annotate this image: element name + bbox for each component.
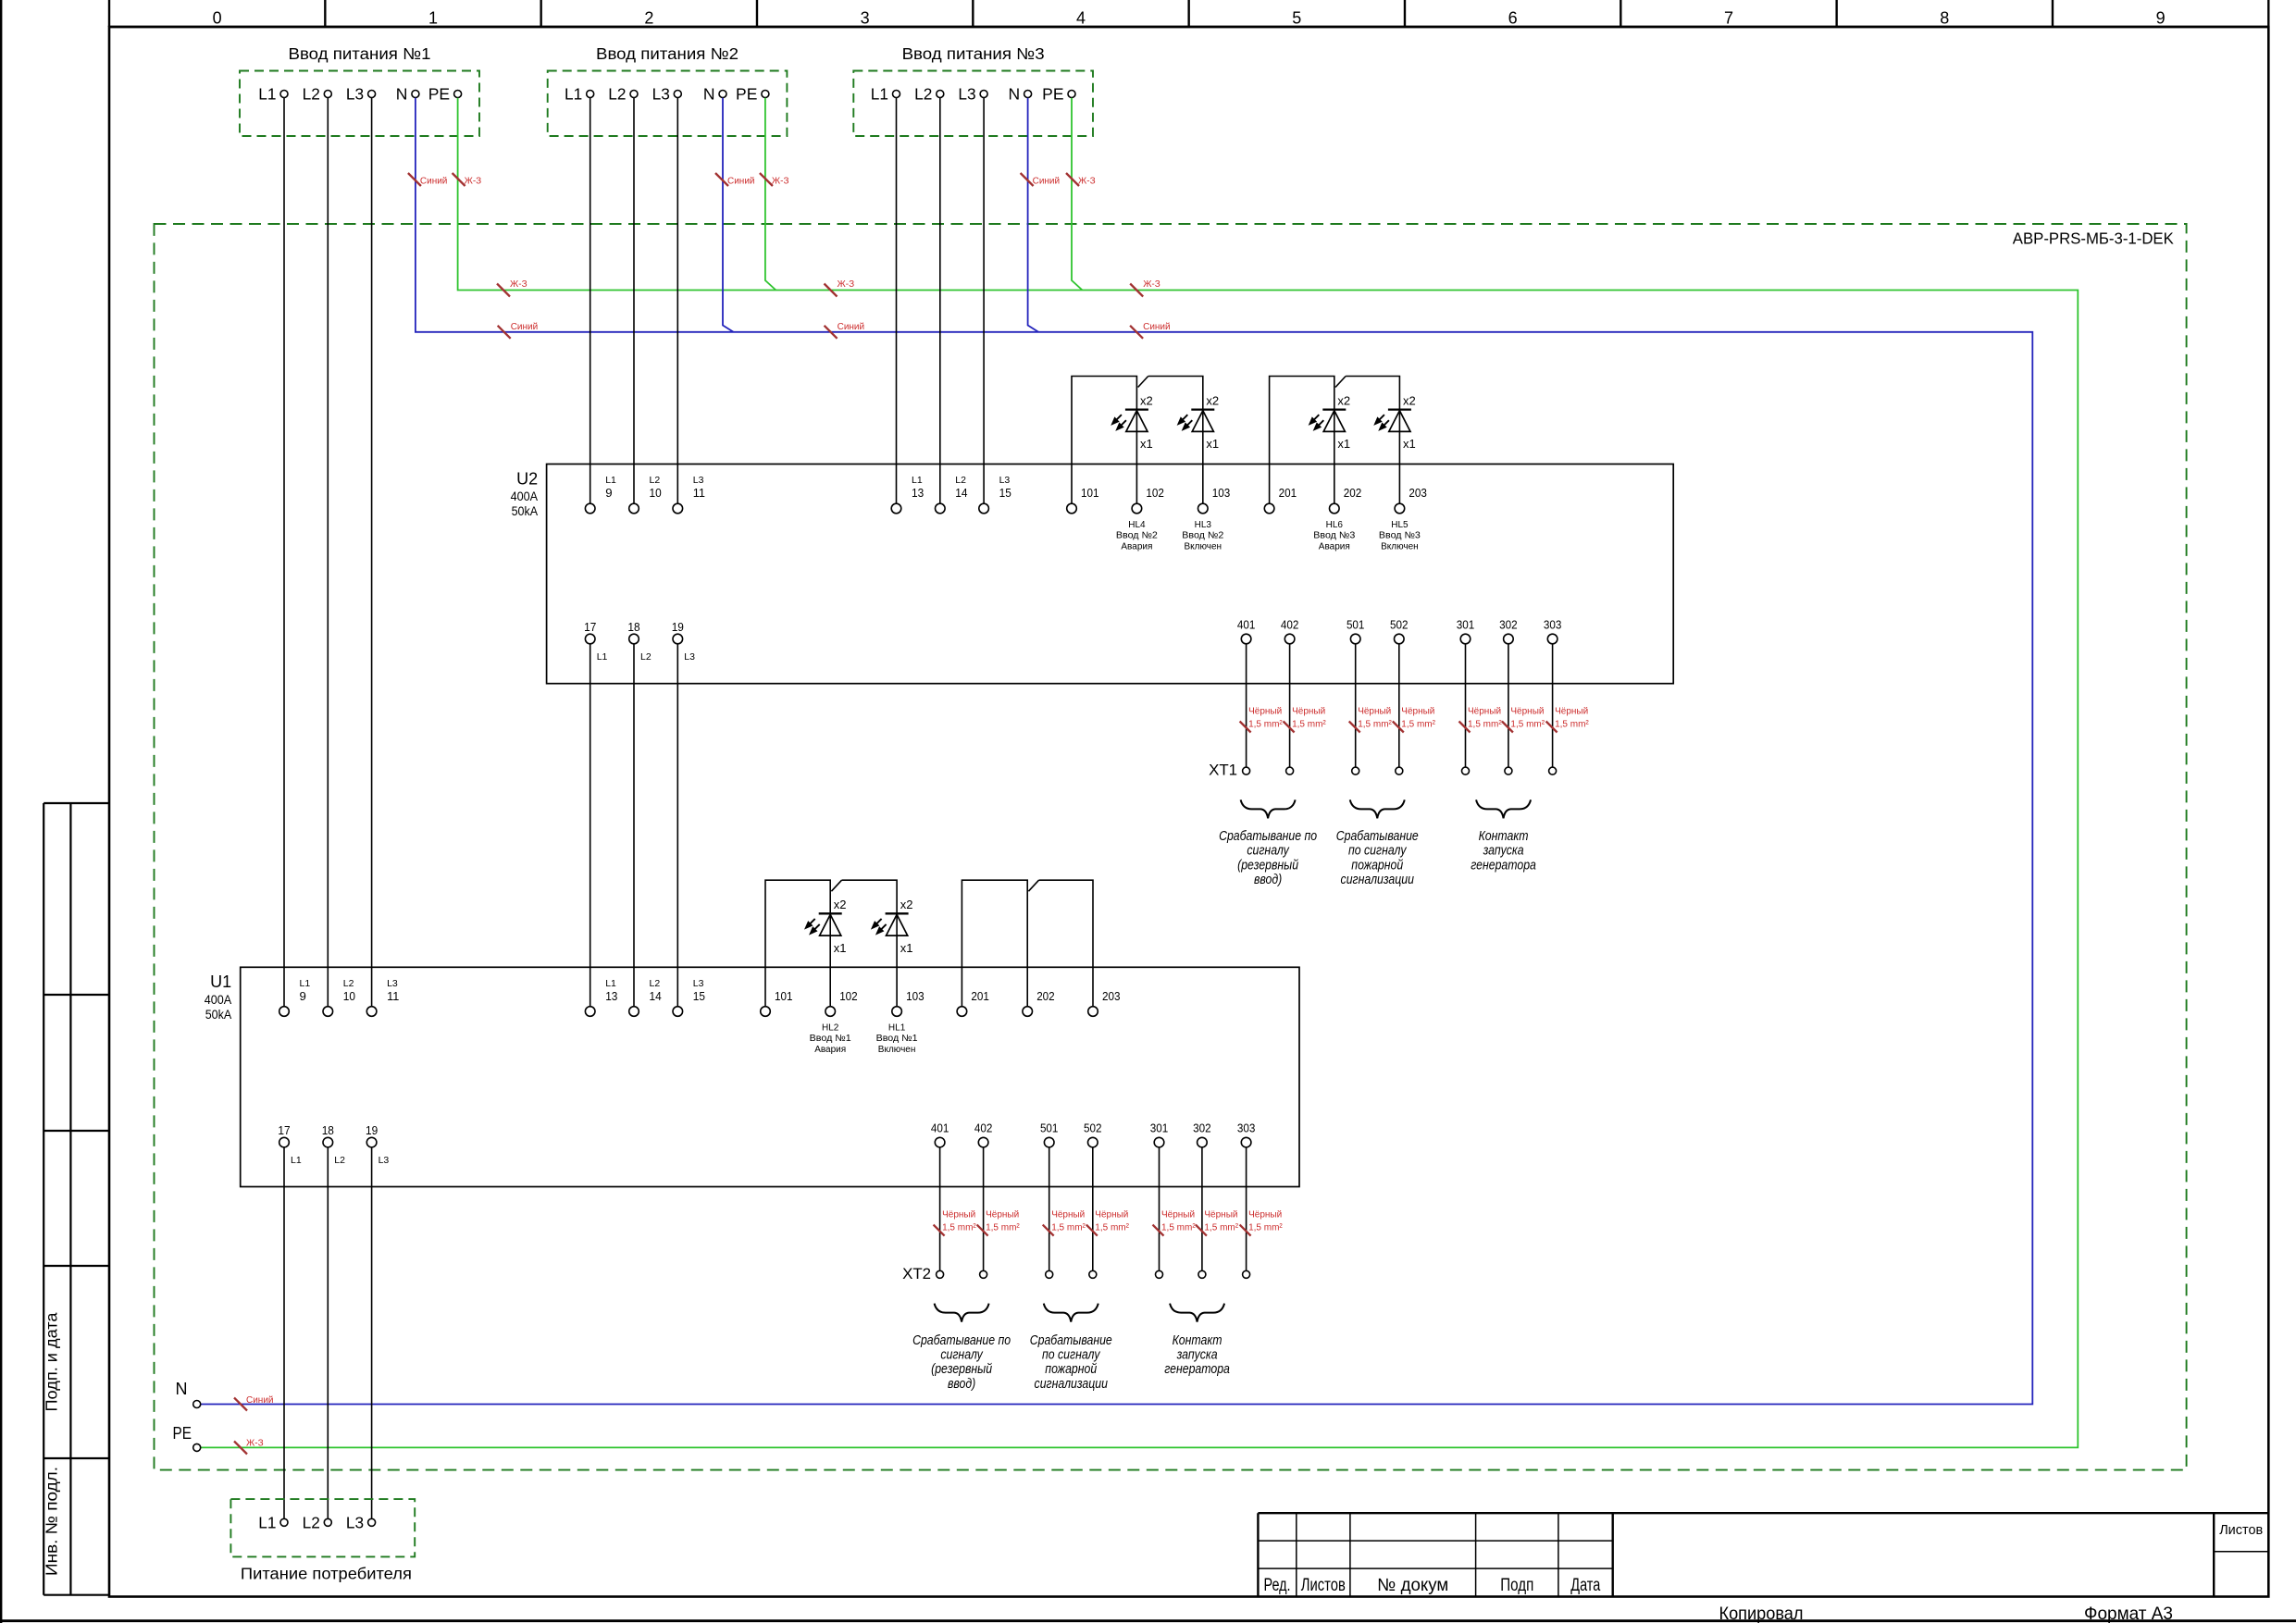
svg-text:Чёрный: Чёрный	[942, 1210, 975, 1220]
svg-text:АВР-PRS-МБ-3-1-DEK: АВР-PRS-МБ-3-1-DEK	[2013, 229, 2174, 248]
svg-text:400A: 400A	[205, 992, 232, 1007]
input block Ввод питания №2 (dashed box)	[548, 44, 788, 136]
brace under XT1 group 1	[1241, 799, 1296, 818]
svg-text:0: 0	[213, 9, 222, 28]
changeover controller U1 (400A 50kA)	[205, 967, 1299, 1186]
U2 input terminal 9 (L1)	[585, 475, 616, 514]
U2 input terminal 13 (L1)	[891, 475, 924, 514]
U2 input terminal 11 (L3)	[673, 475, 705, 514]
svg-text:Ввод №1: Ввод №1	[810, 1034, 851, 1044]
svg-text:x1: x1	[1140, 437, 1153, 451]
wire U1 pin 19 to consumer L3	[371, 1147, 373, 1518]
svg-text:3: 3	[861, 9, 870, 28]
svg-text:102: 102	[839, 989, 858, 1003]
svg-text:15: 15	[999, 486, 1011, 500]
svg-text:501: 501	[1040, 1121, 1059, 1134]
svg-text:L2: L2	[914, 85, 932, 104]
svg-text:Ж-З: Ж-З	[772, 177, 789, 187]
svg-text:10: 10	[343, 989, 355, 1003]
terminal PE of input 3	[1042, 85, 1075, 104]
output block Питание потребителя (dashed box)	[230, 1499, 415, 1582]
svg-text:Чёрный: Чёрный	[1095, 1210, 1128, 1220]
svg-text:L1: L1	[258, 1513, 276, 1531]
svg-text:x2: x2	[900, 898, 913, 911]
svg-text:1,5 mm²: 1,5 mm²	[1161, 1223, 1196, 1233]
svg-text:Контакт: Контакт	[1173, 1332, 1222, 1347]
svg-text:201: 201	[1279, 486, 1297, 500]
wire input2 L2 to U2 pin 10	[633, 98, 635, 504]
wire input1 L1 to U1 pin 9	[283, 98, 285, 1007]
U2 input terminal 15 (L3)	[979, 475, 1011, 514]
U1 signal terminal 103	[892, 989, 925, 1016]
svg-text:Чёрный: Чёрный	[1292, 707, 1325, 717]
label x2/x1 pins of HL5	[1403, 394, 1416, 452]
U2 signal output terminal 401	[1237, 617, 1256, 644]
wire label Чёрный 1,5 mm² at XT1 x=1346.6	[1240, 707, 1284, 733]
svg-text:14: 14	[650, 989, 662, 1003]
svg-text:x1: x1	[834, 941, 847, 955]
svg-text:N: N	[396, 85, 408, 104]
terminal L1 of input 1	[258, 85, 288, 104]
svg-text:17: 17	[584, 620, 596, 634]
svg-text:Формат А3: Формат А3	[2084, 1604, 2173, 1623]
svg-text:Ввод питания №1: Ввод питания №1	[289, 44, 431, 63]
svg-text:x2: x2	[1337, 394, 1350, 408]
U1 signal terminal 201	[957, 989, 989, 1016]
consumer terminal L2	[303, 1513, 332, 1531]
caption under XT2 group 3	[1164, 1332, 1230, 1377]
svg-text:501: 501	[1347, 617, 1365, 631]
svg-text:203: 203	[1102, 989, 1121, 1003]
svg-text:сигналу: сигналу	[940, 1347, 984, 1362]
svg-text:L3: L3	[693, 475, 704, 486]
U1 input terminal 11 (L3)	[366, 978, 399, 1016]
svg-text:U2: U2	[516, 469, 538, 488]
svg-text:302: 302	[1193, 1121, 1211, 1134]
LED lamp HL2	[805, 913, 842, 935]
svg-text:L2: L2	[650, 978, 661, 989]
svg-text:(резервный: (резервный	[1237, 858, 1298, 873]
svg-text:1,5 mm²: 1,5 mm²	[1510, 720, 1545, 730]
wire U2 pin 19 to U1 pin 15	[676, 644, 678, 1007]
terminal block XT1	[1209, 762, 1557, 779]
svg-text:L3: L3	[379, 1155, 390, 1166]
svg-text:Включен: Включен	[878, 1045, 916, 1055]
U1 signal output terminal 402	[974, 1121, 993, 1146]
svg-text:13: 13	[605, 989, 617, 1003]
svg-text:Срабатывание по: Срабатывание по	[912, 1332, 1011, 1347]
svg-text:17: 17	[278, 1123, 290, 1137]
U2 signal terminal 203	[1395, 486, 1427, 514]
svg-text:x2: x2	[834, 898, 847, 911]
wire label Ж-З on PE drop of input 2	[760, 173, 789, 187]
svg-text:Питание потребителя: Питание потребителя	[241, 1565, 412, 1583]
svg-text:1,5 mm²: 1,5 mm²	[1204, 1223, 1238, 1233]
svg-text:Чёрный: Чёрный	[1358, 707, 1391, 717]
wire bracket from terminal column 1158.0 over 1228.4 and 1299.8	[1072, 377, 1203, 504]
U1 signal terminal 203	[1088, 989, 1121, 1016]
svg-text:303: 303	[1237, 1121, 1256, 1134]
svg-text:запуска: запуска	[1483, 843, 1524, 858]
U2 signal output terminal 303	[1544, 617, 1562, 644]
svg-text:по сигналу: по сигналу	[1348, 843, 1408, 858]
svg-text:PE: PE	[1042, 85, 1063, 104]
svg-text:Ввод №3: Ввод №3	[1379, 531, 1421, 541]
svg-text:(резервный: (резервный	[931, 1361, 992, 1376]
svg-text:19: 19	[672, 620, 684, 634]
brace under XT2 group 1	[935, 1304, 989, 1322]
svg-text:Срабатывание: Срабатывание	[1030, 1332, 1112, 1347]
svg-text:L2: L2	[955, 475, 966, 486]
wire input3 L3 to U2 pin 15	[983, 98, 985, 504]
wire label Чёрный 1,5 mm² at XT1 x=1677.6	[1546, 707, 1590, 733]
svg-text:HL1: HL1	[888, 1023, 906, 1034]
terminal L2 of input 2	[608, 85, 638, 104]
U2 signal output terminal 301	[1457, 617, 1475, 644]
svg-text:L1: L1	[597, 651, 608, 663]
svg-text:401: 401	[1237, 617, 1256, 631]
U1 signal output terminal 302	[1193, 1121, 1211, 1146]
wire input3 L1 to U2 pin 13	[896, 98, 898, 504]
U2 signal output terminal 402	[1281, 617, 1299, 644]
wire input3 L2 to U2 pin 14	[939, 98, 941, 504]
wire to XT2 terminal at x=1346.6	[1246, 1147, 1247, 1270]
svg-text:Авария: Авария	[1319, 541, 1350, 551]
terminal L2 of input 1	[303, 85, 332, 104]
svg-text:1,5 mm²: 1,5 mm²	[1468, 720, 1502, 730]
svg-text:Синий: Синий	[727, 177, 755, 187]
N bus Синий (blue) from input1 N, around right side to N terminal	[201, 98, 2032, 1405]
svg-text:L1: L1	[871, 85, 888, 104]
svg-text:1,5 mm²: 1,5 mm²	[1248, 1223, 1283, 1233]
label HL6 Ввод №3 Авария	[1313, 520, 1355, 551]
svg-text:301: 301	[1150, 1121, 1169, 1134]
svg-text:U1: U1	[210, 973, 231, 991]
svg-text:L1: L1	[300, 978, 311, 989]
wire label Синий at N terminal	[234, 1395, 274, 1411]
svg-text:HL4: HL4	[1128, 520, 1146, 530]
svg-text:Ввод №1: Ввод №1	[876, 1034, 918, 1044]
svg-text:Синий: Синий	[420, 177, 448, 187]
brace under XT2 group 3	[1170, 1304, 1224, 1322]
caption under XT1 group 1	[1219, 828, 1318, 886]
terminal N of input 1	[396, 85, 419, 104]
svg-text:x1: x1	[1206, 437, 1219, 451]
svg-text:Чёрный: Чёрный	[1248, 1210, 1282, 1220]
svg-text:9: 9	[605, 486, 612, 500]
svg-text:x2: x2	[1140, 394, 1153, 408]
svg-text:Чёрный: Чёрный	[1468, 707, 1501, 717]
svg-text:PE: PE	[736, 85, 757, 104]
svg-text:Чёрный: Чёрный	[1401, 707, 1434, 717]
svg-text:1,5 mm²: 1,5 mm²	[1555, 720, 1589, 730]
caption under XT2 group 2	[1030, 1332, 1112, 1391]
U1 signal terminal 101	[761, 989, 793, 1016]
svg-text:Срабатывание: Срабатывание	[1336, 828, 1419, 843]
svg-text:Контакт: Контакт	[1479, 828, 1529, 843]
svg-text:18: 18	[322, 1123, 334, 1137]
svg-text:1,5 mm²: 1,5 mm²	[1051, 1223, 1086, 1233]
label x2/x1 pins of HL2	[834, 898, 847, 955]
U1 input terminal 13 (L1)	[585, 978, 617, 1016]
svg-text:Включен: Включен	[1185, 541, 1222, 551]
wire label Ж-З on PE drop of input 1	[453, 173, 482, 187]
wire to XT1 terminal at x=1677.6	[1552, 644, 1554, 767]
svg-text:L2: L2	[650, 475, 661, 486]
svg-text:Включен: Включен	[1381, 541, 1419, 551]
svg-text:202: 202	[1036, 989, 1055, 1003]
svg-text:202: 202	[1344, 486, 1362, 500]
wire label Чёрный 1,5 mm² at XT2 x=1062.6	[977, 1210, 1021, 1236]
wire input1 L3 to U1 pin 11	[371, 98, 373, 1007]
wire label Чёрный 1,5 mm² at XT1 x=1511.8	[1393, 707, 1436, 733]
svg-text:1,5 mm²: 1,5 mm²	[1248, 720, 1283, 730]
svg-text:пожарной: пожарной	[1045, 1361, 1097, 1376]
brace under XT1 group 2	[1350, 799, 1405, 818]
LED lamp HL1	[872, 913, 909, 935]
U1 signal terminal 102	[825, 989, 858, 1016]
svg-text:Чёрный: Чёрный	[986, 1210, 1019, 1220]
svg-text:301: 301	[1457, 617, 1475, 631]
svg-text:502: 502	[1084, 1121, 1102, 1134]
svg-text:L3: L3	[684, 651, 695, 663]
wire label Чёрный 1,5 mm² at XT1 x=1464.7	[1349, 707, 1393, 733]
svg-text:L1: L1	[912, 475, 923, 486]
svg-text:Ввод №2: Ввод №2	[1182, 531, 1223, 541]
svg-text:Ж-З: Ж-З	[1078, 177, 1096, 187]
svg-text:Ж-З: Ж-З	[465, 177, 482, 187]
svg-text:Ж-З: Ж-З	[838, 279, 855, 290]
svg-text:Ввод №3: Ввод №3	[1313, 531, 1355, 541]
svg-text:L1: L1	[605, 475, 616, 486]
svg-text:Инв. № подл.: Инв. № подл.	[43, 1467, 61, 1576]
terminal L3 of input 2	[652, 85, 682, 104]
svg-text:1: 1	[428, 9, 438, 28]
wire to XT1 terminal at x=1346.6	[1246, 644, 1247, 767]
svg-text:L2: L2	[608, 85, 626, 104]
svg-text:1,5 mm²: 1,5 mm²	[1095, 1223, 1129, 1233]
svg-text:x1: x1	[900, 941, 913, 955]
wire to XT1 terminal at x=1464.7	[1355, 644, 1357, 767]
U2 signal output terminal 502	[1390, 617, 1409, 644]
wire label Ж-З on PE bus segment 3	[1130, 279, 1160, 297]
svg-text:Синий: Синий	[1033, 177, 1061, 187]
svg-text:14: 14	[955, 486, 967, 500]
svg-text:сигналу: сигналу	[1247, 843, 1290, 858]
svg-text:генератора: генератора	[1471, 858, 1536, 873]
svg-text:402: 402	[974, 1121, 993, 1134]
LED lamp HL4	[1111, 410, 1148, 432]
wire label Чёрный 1,5 mm² at XT1 x=1583.5	[1459, 707, 1503, 733]
terminal PE of input 2	[736, 85, 769, 104]
svg-text:19: 19	[366, 1123, 378, 1137]
svg-text:по сигналу: по сигналу	[1042, 1347, 1101, 1362]
terminal N (neutral output)	[176, 1380, 201, 1408]
wire U2 pin 17 to U1 pin 13	[590, 644, 591, 1007]
svg-text:L2: L2	[334, 1155, 345, 1166]
svg-text:Ввод №2: Ввод №2	[1116, 531, 1158, 541]
svg-text:Чёрный: Чёрный	[1051, 1210, 1085, 1220]
svg-text:1,5 mm²: 1,5 mm²	[986, 1223, 1020, 1233]
wire bracket from terminal column 1039.4 over 1110.2 and 1181.0	[962, 880, 1093, 1006]
svg-text:4: 4	[1076, 9, 1086, 28]
wire label Синий on N bus segment 3	[1130, 322, 1171, 339]
svg-text:Синий: Синий	[838, 322, 865, 332]
svg-text:502: 502	[1390, 617, 1409, 631]
svg-text:1,5 mm²: 1,5 mm²	[942, 1223, 976, 1233]
wire input1 L2 to U1 pin 10	[327, 98, 329, 1007]
svg-text:11: 11	[387, 989, 399, 1003]
wire U1 pin 17 to consumer L1	[283, 1147, 285, 1518]
svg-text:Чёрный: Чёрный	[1510, 707, 1544, 717]
svg-text:1,5 mm²: 1,5 mm²	[1292, 720, 1326, 730]
svg-text:Синий: Синий	[1143, 322, 1171, 332]
U2 input terminal 14 (L2)	[936, 475, 968, 514]
wire N input2 drop to N bus (with junction jog)	[723, 98, 734, 332]
U1 input terminal 9 (L1)	[279, 978, 311, 1016]
wire label Ж-З on PE bus segment 2	[825, 279, 855, 297]
svg-text:L1: L1	[565, 85, 582, 104]
label x2/x1 pins of HL6	[1337, 394, 1350, 452]
terminal L1 of input 3	[871, 85, 900, 104]
svg-text:103: 103	[906, 989, 925, 1003]
svg-text:L3: L3	[652, 85, 670, 104]
svg-text:XT1: XT1	[1209, 762, 1237, 779]
svg-text:N: N	[176, 1380, 188, 1398]
svg-text:Ред.: Ред.	[1264, 1576, 1291, 1595]
svg-text:№ докум: № докум	[1377, 1576, 1448, 1595]
wire label Чёрный 1,5 mm² at XT2 x=1298.9	[1196, 1210, 1239, 1236]
svg-text:101: 101	[1081, 486, 1099, 500]
svg-text:Авария: Авария	[814, 1045, 846, 1055]
U1 input terminal 14 (L2)	[629, 978, 662, 1016]
label HL3 Ввод №2 Включен	[1182, 520, 1223, 551]
wire label Синий on N bus segment 2	[825, 322, 865, 339]
wire label Чёрный 1,5 mm² at XT2 x=1346.6	[1240, 1210, 1284, 1236]
svg-text:L2: L2	[303, 85, 320, 104]
svg-text:L1: L1	[291, 1155, 302, 1166]
svg-text:50kA: 50kA	[205, 1007, 232, 1022]
wire label Чёрный 1,5 mm² at XT1 x=1393.6	[1284, 707, 1327, 733]
svg-text:6: 6	[1508, 9, 1518, 28]
svg-text:9: 9	[300, 989, 306, 1003]
svg-text:1,5 mm²: 1,5 mm²	[1358, 720, 1392, 730]
svg-text:HL6: HL6	[1326, 520, 1344, 530]
svg-text:400A: 400A	[511, 489, 539, 503]
wire input2 L1 to U2 pin 9	[590, 98, 591, 504]
label x2/x1 pins of HL4	[1140, 394, 1153, 452]
U1 signal output terminal 401	[931, 1121, 949, 1146]
wire to XT1 terminal at x=1583.5	[1465, 644, 1467, 767]
svg-text:L3: L3	[693, 978, 704, 989]
svg-text:сигнализации: сигнализации	[1341, 872, 1415, 886]
svg-text:запуска: запуска	[1176, 1347, 1218, 1362]
U1 signal terminal 202	[1023, 989, 1055, 1016]
wire input2 L3 to U2 pin 11	[676, 98, 678, 504]
wire to XT2 terminal at x=1298.9	[1201, 1147, 1203, 1270]
terminal PE of input 1	[428, 85, 462, 104]
U2 output terminal 18 (L2)	[627, 620, 651, 663]
U1 signal output terminal 303	[1237, 1121, 1256, 1146]
terminal block XT2	[902, 1265, 1250, 1282]
terminal N of input 2	[703, 85, 726, 104]
wire label Чёрный 1,5 mm² at XT2 x=1252.5	[1153, 1210, 1197, 1236]
svg-text:101: 101	[775, 989, 793, 1003]
svg-text:L3: L3	[346, 1513, 364, 1531]
svg-text:10: 10	[650, 486, 662, 500]
wire to XT1 terminal at x=1511.8	[1398, 644, 1400, 767]
svg-text:Ж-З: Ж-З	[510, 279, 527, 290]
wire label Ж-З at PE terminal	[234, 1439, 264, 1455]
U2 signal output terminal 501	[1347, 617, 1365, 644]
terminal L3 of input 3	[958, 85, 987, 104]
svg-text:103: 103	[1212, 486, 1231, 500]
U1 input terminal 10 (L2)	[323, 978, 355, 1016]
wire U2 pin 18 to U1 pin 14	[633, 644, 635, 1007]
svg-text:203: 203	[1409, 486, 1427, 500]
svg-text:L2: L2	[343, 978, 354, 989]
caption under XT2 group 1	[912, 1332, 1011, 1391]
wire label Чёрный 1,5 mm² at XT2 x=1180.8	[1086, 1210, 1130, 1236]
U1 output terminal 19 (L3)	[366, 1123, 389, 1166]
svg-text:13: 13	[912, 486, 924, 500]
wire to XT1 terminal at x=1393.6	[1289, 644, 1291, 767]
wire N input3 drop to N bus (with junction jog)	[1028, 98, 1039, 332]
svg-text:N: N	[1008, 85, 1020, 104]
U1 input terminal 15 (L3)	[673, 978, 705, 1016]
label x2/x1 pins of HL1	[900, 898, 913, 955]
wire to XT2 terminal at x=1062.6	[983, 1147, 985, 1270]
svg-text:L1: L1	[258, 85, 276, 104]
label HL2 Ввод №1 Авария	[810, 1023, 851, 1055]
U1 output terminal 18 (L2)	[322, 1123, 345, 1166]
changeover controller U2 (400A 50kA)	[511, 465, 1674, 684]
LED lamp HL3	[1177, 410, 1214, 432]
U2 signal terminal 102	[1132, 486, 1164, 514]
wire to XT1 terminal at x=1629.9	[1508, 644, 1509, 767]
PE bus Ж-З (green) from input1 PE, around right side to PE terminal	[201, 98, 2078, 1448]
wire U1 pin 18 to consumer L2	[327, 1147, 329, 1518]
caption under XT1 group 3	[1471, 828, 1536, 873]
wire label Ж-З on PE drop of input 3	[1066, 173, 1096, 187]
U2 signal terminal 201	[1264, 486, 1297, 514]
U2 signal output terminal 302	[1499, 617, 1518, 644]
label HL1 Ввод №1 Включен	[876, 1023, 918, 1055]
svg-text:Срабатывание по: Срабатывание по	[1219, 828, 1318, 843]
svg-text:201: 201	[971, 989, 989, 1003]
svg-text:5: 5	[1292, 9, 1301, 28]
terminal L3 of input 1	[346, 85, 376, 104]
svg-text:N: N	[703, 85, 715, 104]
brace under XT1 group 3	[1476, 799, 1531, 818]
wire label Чёрный 1,5 mm² at XT1 x=1629.9	[1502, 707, 1545, 733]
svg-text:L3: L3	[387, 978, 398, 989]
svg-text:Листов: Листов	[2219, 1522, 2263, 1538]
U2 signal terminal 103	[1198, 486, 1231, 514]
wire label Ж-З on PE bus segment 1	[497, 279, 527, 297]
svg-text:Ввод питания №3: Ввод питания №3	[902, 44, 1045, 63]
svg-text:x1: x1	[1403, 437, 1416, 451]
svg-text:L1: L1	[605, 978, 616, 989]
svg-text:L3: L3	[346, 85, 364, 104]
svg-text:ввод): ввод)	[948, 1376, 975, 1391]
svg-text:Авария: Авария	[1121, 541, 1152, 551]
wire label Синий on N drop of input 2	[715, 173, 755, 187]
label x2/x1 pins of HL3	[1206, 394, 1219, 452]
svg-text:Чёрный: Чёрный	[1248, 707, 1282, 717]
svg-text:ввод): ввод)	[1254, 872, 1282, 886]
svg-text:7: 7	[1724, 9, 1733, 28]
